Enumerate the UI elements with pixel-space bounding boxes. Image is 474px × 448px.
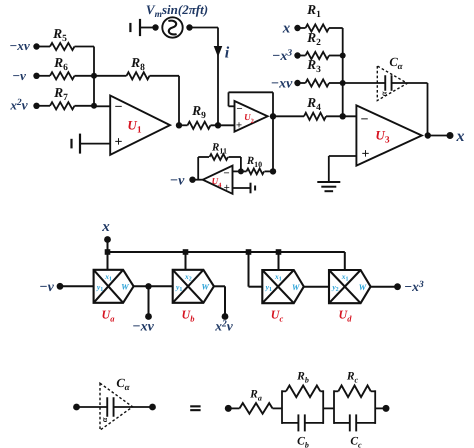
svg-text:Ua: Ua: [102, 308, 116, 324]
svg-text:−: −: [361, 113, 369, 128]
svg-text:−v: −v: [39, 280, 54, 295]
svg-text:R5: R5: [52, 26, 67, 44]
svg-text:−x3: −x3: [272, 49, 292, 65]
svg-text:+: +: [224, 182, 230, 194]
svg-text:x2v: x2v: [9, 98, 28, 113]
svg-text:R10: R10: [246, 155, 262, 169]
svg-text:x: x: [456, 128, 465, 145]
svg-text:Uc: Uc: [271, 308, 284, 324]
svg-text:R9: R9: [191, 103, 206, 121]
svg-text:−v: −v: [12, 68, 26, 83]
svg-text:−xv: −xv: [132, 320, 154, 335]
svg-text:−: −: [236, 103, 242, 115]
svg-text:R8: R8: [130, 55, 145, 73]
svg-text:R1: R1: [306, 2, 321, 20]
svg-text:−v: −v: [170, 173, 185, 188]
svg-text:R7: R7: [53, 85, 68, 103]
svg-text:i: i: [225, 45, 230, 62]
svg-text:Cα: Cα: [389, 55, 403, 71]
svg-text:x2v: x2v: [214, 319, 234, 334]
svg-text:R6: R6: [53, 55, 68, 73]
svg-text:+: +: [115, 135, 123, 150]
svg-text:Rc: Rc: [346, 371, 359, 385]
svg-text:−: −: [115, 100, 123, 115]
svg-text:R11: R11: [211, 142, 227, 156]
svg-text:Cb: Cb: [297, 436, 309, 448]
svg-text:R4: R4: [306, 95, 321, 113]
svg-text:α: α: [378, 91, 388, 96]
svg-text:Cα: Cα: [116, 376, 130, 392]
svg-text:−: −: [223, 168, 229, 180]
svg-text:Ra: Ra: [249, 389, 262, 403]
svg-text:x: x: [101, 219, 110, 235]
svg-text:+: +: [236, 119, 242, 131]
svg-text:Ub: Ub: [182, 308, 195, 324]
svg-text:Ud: Ud: [339, 308, 353, 324]
svg-text:+: +: [362, 147, 370, 162]
svg-text:Rb: Rb: [296, 371, 309, 385]
svg-text:x: x: [282, 21, 291, 37]
svg-text:−x3: −x3: [404, 279, 424, 294]
svg-text:α: α: [99, 417, 109, 422]
svg-text:Cc: Cc: [350, 436, 362, 448]
svg-text:−xv: −xv: [9, 38, 30, 53]
svg-text:−xv: −xv: [271, 77, 293, 92]
